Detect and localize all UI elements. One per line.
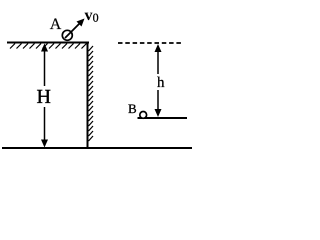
svg-text:0: 0 — [93, 11, 99, 25]
svg-text:h: h — [157, 75, 165, 91]
ball B — [140, 112, 147, 119]
platform line for B — [138, 117, 188, 119]
dashed level line — [118, 42, 184, 44]
cliff wall hatching — [89, 46, 94, 141]
svg-text:v: v — [84, 7, 92, 24]
cliff top surface line — [7, 42, 89, 44]
h measure arrow — [155, 44, 162, 117]
cliff wall — [87, 42, 89, 149]
cliff top hatching — [10, 44, 87, 49]
ball A — [62, 30, 72, 40]
v0 velocity arrow — [65, 19, 85, 39]
svg-text:B: B — [128, 101, 137, 116]
ground line — [2, 147, 192, 149]
svg-text:H: H — [36, 86, 50, 108]
H measure arrow — [41, 44, 48, 148]
svg-text:A: A — [50, 16, 62, 33]
